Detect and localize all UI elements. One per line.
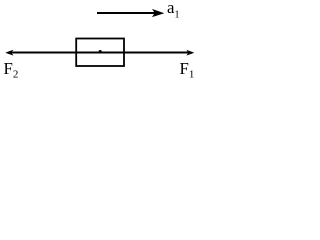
label a1 [167, 0, 179, 20]
right arrowhead (force F1) [186, 50, 194, 56]
label F2 [4, 61, 19, 81]
label F1 [180, 61, 195, 81]
center dot [99, 50, 102, 53]
block (box) [76, 39, 124, 67]
left arrowhead (force F2) [5, 50, 13, 56]
acceleration arrow a1 head [152, 9, 164, 17]
acceleration arrow a1 shaft [97, 12, 155, 14]
main horizontal line (wire) [10, 52, 189, 54]
